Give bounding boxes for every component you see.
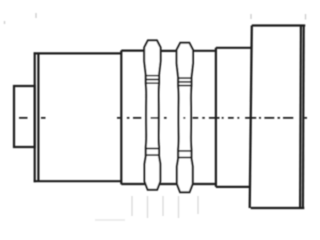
flange left edge xyxy=(250,26,252,209)
ring 2 lower neck bars xyxy=(178,151,191,158)
left stub xyxy=(14,86,35,147)
body left double line inner xyxy=(37,53,39,181)
ring 2 upper neck bars xyxy=(178,78,191,86)
collar face xyxy=(215,48,217,187)
flange right outer line xyxy=(302,26,305,209)
flange bottom edge xyxy=(251,207,305,209)
ring-section bottom edge xyxy=(121,183,216,185)
main outline group xyxy=(14,26,305,209)
centerline dash-dot xyxy=(19,117,307,119)
ring 1 lower neck bars xyxy=(146,149,159,156)
faint scan streaks below rings xyxy=(132,196,198,218)
ring 1 upper neck bars xyxy=(146,76,159,84)
flange right inner line xyxy=(299,26,302,207)
body top edge xyxy=(34,52,122,54)
faint scan smudge bottom left xyxy=(95,219,125,221)
faint scan ticks top xyxy=(5,13,306,24)
ring 2 silhouette xyxy=(177,43,193,192)
collar top edge xyxy=(216,47,251,49)
ring-section top edge xyxy=(121,49,216,52)
body/ring-section face xyxy=(120,51,122,185)
ring 1 silhouette xyxy=(144,40,160,189)
collar bottom edge xyxy=(216,186,251,188)
flange top edge xyxy=(252,24,305,26)
body left double line outer xyxy=(34,52,36,182)
body bottom edge xyxy=(34,180,122,182)
